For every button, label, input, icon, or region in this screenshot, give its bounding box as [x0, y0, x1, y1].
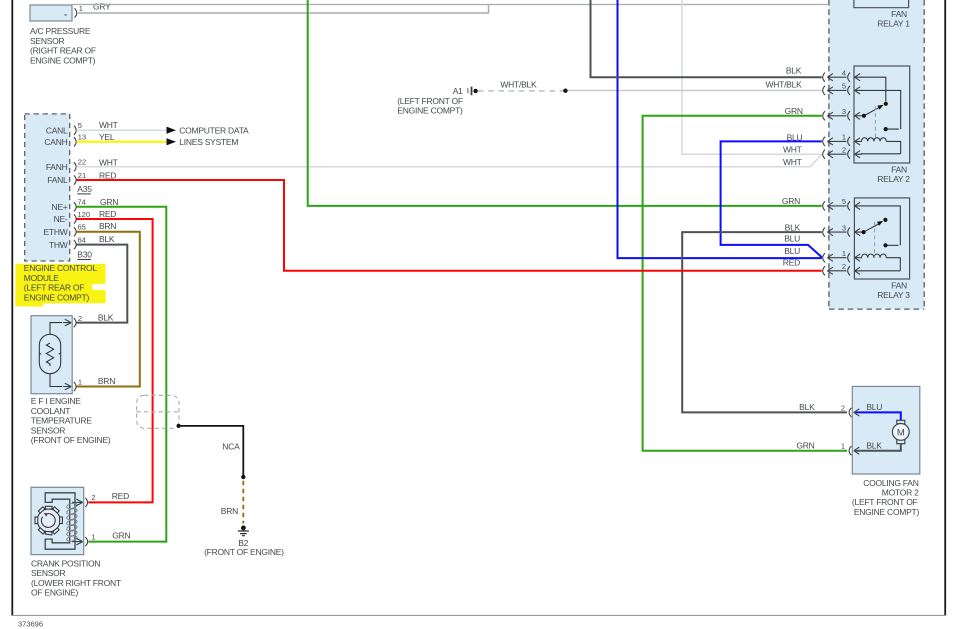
svg-text:1: 1	[79, 4, 83, 13]
svg-text:3: 3	[842, 107, 846, 116]
svg-text:BLU: BLU	[866, 402, 882, 412]
fan relay 3 box	[854, 198, 909, 279]
ECM pin numbers	[78, 121, 91, 244]
svg-text:1: 1	[842, 249, 846, 258]
wire BRN ETHW to coolant temp sensor	[76, 232, 139, 387]
svg-text:COOLING FAN: COOLING FAN	[863, 478, 918, 488]
svg-text:1: 1	[78, 378, 82, 387]
svg-text:ENGINE COMPT): ENGINE COMPT)	[24, 292, 90, 302]
svg-text:ENGINE COMPT): ENGINE COMPT)	[854, 507, 920, 517]
crank sensor pickup coil	[66, 502, 77, 542]
coolant sensor label	[31, 396, 111, 445]
crank position sensor box	[31, 487, 84, 554]
wire WHT FANH to fan relay 2 pin 2	[76, 154, 821, 167]
wire BLK fan relay 3 pin 3 to cooling fan motor pin 2	[682, 232, 847, 412]
fan relay 2 box	[854, 66, 910, 163]
junction dot at ghost connector	[177, 424, 181, 428]
svg-text:SENSOR: SENSOR	[30, 36, 65, 46]
wire GRY from A/C sensor	[78, 5, 489, 14]
svg-text:21: 21	[78, 171, 86, 180]
ECM pin NE+ bracket	[74, 202, 76, 211]
coolant sensor thermistor element	[39, 323, 62, 387]
svg-text:CRANK POSITION: CRANK POSITION	[31, 558, 100, 568]
svg-text:CANH: CANH	[44, 137, 67, 147]
junction dot NCA/BRN	[241, 475, 245, 479]
coolant sensor pin 2 connector	[63, 318, 76, 327]
fan relay 2 wire labels	[765, 66, 802, 167]
svg-text:5: 5	[78, 121, 82, 130]
svg-text:BLK: BLK	[786, 66, 802, 76]
svg-text:(FRONT OF ENGINE): (FRONT OF ENGINE)	[204, 547, 284, 557]
svg-text:NE-: NE-	[54, 214, 68, 224]
svg-text:WHT/BLK: WHT/BLK	[765, 79, 802, 89]
crank sensor pin 1 connector	[75, 537, 88, 546]
svg-text:ENGINE COMPT): ENGINE COMPT)	[397, 106, 463, 116]
svg-text:373696: 373696	[18, 619, 43, 628]
fan relay 2 mechanical link (dashed)	[874, 106, 876, 137]
page right border	[944, 0, 946, 616]
fan relay 2 pin 4 connector	[823, 73, 862, 82]
svg-text:BRN: BRN	[99, 221, 116, 231]
svg-text:(LEFT FRONT OF: (LEFT FRONT OF	[852, 497, 918, 507]
wire RED NE- to crank position sensor	[76, 219, 152, 502]
ECM pin FANH bracket	[74, 162, 76, 171]
svg-text:YEL: YEL	[99, 132, 115, 142]
motor internal BLU wire	[856, 412, 901, 420]
svg-text:WHT: WHT	[99, 120, 118, 130]
svg-text:RED: RED	[99, 209, 116, 219]
svg-text:3: 3	[842, 223, 846, 232]
svg-text:13: 13	[78, 133, 86, 142]
crank sensor reluctor wheel	[35, 506, 62, 535]
svg-text:(RIGHT REAR OF: (RIGHT REAR OF	[30, 46, 96, 56]
wire BRN dashed to ground B2	[242, 481, 244, 524]
wire NCA black	[179, 426, 244, 477]
svg-text:FANL: FANL	[47, 175, 68, 185]
fan relay 3 wire labels	[782, 196, 801, 267]
svg-text:FANH: FANH	[46, 162, 68, 172]
wire WHT CANL	[76, 129, 166, 131]
A1 location label	[397, 96, 463, 116]
fan relay 3 internal switch and coil	[861, 206, 901, 271]
ECM pin CANH bracket	[74, 137, 76, 146]
svg-text:RELAY 2: RELAY 2	[877, 174, 910, 184]
wire WHT/BLK dashed section at A1	[478, 90, 563, 92]
crank sensor pin 2 connector	[75, 498, 88, 507]
ECM pin names	[43, 125, 68, 249]
fan relay 2 pin 1 connector	[823, 137, 862, 146]
motor internal BLK wire	[856, 444, 901, 451]
svg-text:BLK: BLK	[799, 402, 815, 412]
fan relay 3 pin 3 connector	[823, 228, 862, 237]
svg-text:BLU: BLU	[787, 132, 803, 142]
crank sensor label	[31, 558, 121, 597]
svg-text:(LOWER RIGHT FRONT: (LOWER RIGHT FRONT	[31, 578, 121, 588]
cooling fan motor label	[852, 478, 920, 517]
svg-text:65: 65	[78, 223, 86, 232]
fan relay 1 box (cut off at top)	[854, 0, 909, 8]
svg-text:120: 120	[78, 210, 91, 219]
svg-text:NCA: NCA	[222, 441, 240, 451]
fan relay 1 label	[877, 9, 910, 28]
svg-text:74: 74	[78, 198, 86, 207]
computer data lines arrow 2	[167, 138, 177, 145]
fan relay 3 pin 2 connector	[823, 266, 862, 275]
svg-text:4: 4	[842, 68, 846, 77]
svg-text:2: 2	[78, 314, 82, 323]
ECM connector id B30	[77, 250, 92, 260]
A/C pressure sensor pin 1 bracket	[75, 8, 77, 17]
svg-text:MOTOR 2: MOTOR 2	[882, 488, 919, 498]
svg-text:2: 2	[842, 262, 846, 271]
svg-text:(LEFT FRONT OF: (LEFT FRONT OF	[397, 96, 463, 106]
svg-text:COOLANT: COOLANT	[31, 406, 70, 416]
ECM pin THW bracket	[74, 240, 76, 249]
svg-text:LINES SYSTEM: LINES SYSTEM	[179, 137, 238, 147]
svg-text:WHT/BLK: WHT/BLK	[500, 80, 537, 90]
svg-text:RED: RED	[783, 258, 800, 268]
svg-text:WHT: WHT	[783, 157, 802, 167]
svg-text:2: 2	[841, 403, 845, 412]
computer data lines arrow 1	[167, 127, 177, 134]
A/C pressure sensor label	[30, 26, 96, 65]
svg-text:BLK: BLK	[866, 440, 882, 450]
svg-text:RELAY 1: RELAY 1	[877, 19, 910, 29]
svg-text:FAN: FAN	[891, 280, 907, 290]
svg-text:ENGINE COMPT): ENGINE COMPT)	[30, 55, 96, 65]
svg-text:BRN: BRN	[221, 506, 238, 516]
wire RED FANL to fan relay 3 pin 2	[76, 180, 821, 271]
svg-text:1: 1	[91, 532, 95, 541]
ECM wire color labels	[99, 120, 118, 244]
crank sensor magnetic core	[45, 493, 75, 549]
ECM pin FANL bracket	[74, 175, 76, 184]
wire GRN from top to fan relay 3 pin 5	[308, 0, 822, 206]
ECM pin NE- bracket	[74, 214, 76, 223]
wire WHT vertical from top to fan relay 2 pin 2	[682, 0, 822, 154]
fan relay 3 pin numbers	[842, 197, 846, 271]
svg-text:1: 1	[841, 442, 845, 451]
engine control module dashed connector box	[25, 114, 70, 261]
wire GRN NE+ to crank position sensor	[76, 207, 166, 542]
noise filter ghost connector (dashed)	[137, 395, 179, 428]
svg-text:5: 5	[842, 82, 846, 91]
svg-text:GRN: GRN	[782, 196, 800, 206]
svg-text:E F I ENGINE: E F I ENGINE	[31, 396, 81, 406]
wire BLK THW to coolant temp sensor	[76, 245, 127, 323]
fan relay 2 pin numbers	[842, 68, 846, 154]
svg-text:FAN: FAN	[891, 164, 907, 174]
svg-text:GRN: GRN	[100, 197, 118, 207]
ground symbol B2	[238, 526, 249, 536]
wire GRN fan relay 2 pin 3 to cooling fan motor pin 1	[643, 116, 847, 451]
svg-text:64: 64	[78, 235, 86, 244]
wire WHT/BLK from A1 to fan relay 2 pin 5	[568, 90, 822, 92]
svg-text:A35: A35	[77, 184, 92, 194]
B2 label	[204, 538, 284, 557]
svg-text:CANL: CANL	[46, 125, 68, 135]
fan relay 2 internal switch and coil	[861, 77, 901, 154]
svg-text:WHT: WHT	[99, 157, 118, 167]
svg-text:(LEFT REAR OF: (LEFT REAR OF	[24, 283, 84, 293]
fan relay 2 pin 3 connector	[823, 111, 862, 120]
svg-text:B30: B30	[77, 250, 92, 260]
svg-text:BLK: BLK	[98, 312, 114, 322]
svg-text:5: 5	[842, 197, 846, 206]
svg-text:GRN: GRN	[785, 106, 803, 116]
svg-text:(FRONT OF ENGINE): (FRONT OF ENGINE)	[31, 435, 111, 445]
page bottom border	[11, 615, 946, 616]
svg-text:NE+: NE+	[51, 202, 67, 212]
wire YEL CANH	[76, 141, 166, 143]
svg-text:BLU: BLU	[784, 246, 800, 256]
wire BLU fan relay 2 pin 1 to fan relay 3 pin 1	[721, 141, 822, 257]
ECM pin ETHW bracket	[74, 227, 76, 236]
svg-text:THW: THW	[49, 240, 68, 250]
fan relay 2 label	[877, 164, 910, 184]
ECM label (highlighted)	[24, 263, 98, 302]
svg-text:ENGINE CONTROL: ENGINE CONTROL	[24, 263, 98, 273]
cooling fan motor pin 1 connector	[849, 446, 861, 455]
svg-text:BLK: BLK	[99, 234, 115, 244]
ECM connector id A35	[77, 184, 92, 194]
yellow highlighter over ECM label	[15, 264, 106, 307]
EFI engine coolant temperature sensor box	[31, 316, 72, 394]
svg-text:COMPUTER DATA: COMPUTER DATA	[179, 126, 249, 136]
svg-text:A1: A1	[453, 86, 463, 96]
svg-text:GRN: GRN	[112, 530, 130, 540]
svg-text:WHT: WHT	[783, 144, 802, 154]
svg-text:2: 2	[842, 145, 846, 154]
svg-text:RED: RED	[112, 491, 129, 501]
fan relay 3 label	[877, 280, 910, 300]
svg-text:GRN: GRN	[796, 440, 814, 450]
svg-text:1: 1	[842, 133, 846, 142]
svg-text:M: M	[897, 427, 905, 438]
computer data lines system label	[179, 126, 249, 148]
svg-text:SENSOR: SENSOR	[31, 425, 66, 435]
fan relay 3 pin 5 connector	[823, 201, 862, 210]
fan relay 3 pin 1 connector	[823, 253, 862, 262]
svg-text:22: 22	[78, 158, 86, 167]
svg-text:BRN: BRN	[98, 376, 115, 386]
cooling fan motor pin 2 connector	[849, 408, 861, 417]
svg-text:BLU: BLU	[784, 234, 800, 244]
svg-text:TEMPERATURE: TEMPERATURE	[31, 416, 92, 426]
wire BLU from top to fan relay 3 pin 1	[618, 0, 822, 258]
svg-text:MODULE: MODULE	[24, 273, 59, 283]
svg-text:OF ENGINE): OF ENGINE)	[31, 588, 79, 598]
fan relay 3 mechanical link (dashed)	[874, 222, 876, 258]
svg-text:2: 2	[91, 493, 95, 502]
svg-text:ETHW: ETHW	[43, 227, 67, 237]
svg-text:SENSOR: SENSOR	[31, 568, 66, 578]
page left border	[11, 0, 13, 616]
svg-text:RELAY 3: RELAY 3	[877, 290, 910, 300]
ECM pin CANL bracket	[74, 126, 76, 135]
motor M symbol	[892, 420, 909, 443]
fan relay 2 pin 5 connector	[823, 86, 862, 95]
wire BLK from top to fan relay 2 pin 4	[591, 0, 822, 77]
crank sensor coil leads	[72, 502, 75, 541]
cooling fan motor 2 box	[852, 386, 920, 474]
fan relay dashed enclosure box	[829, 0, 924, 309]
wire top gray to fan relay 1	[72, 4, 829, 6]
svg-text:BLK: BLK	[785, 222, 801, 232]
A/C pressure sensor box	[30, 5, 72, 21]
coolant sensor pin 1 connector	[63, 382, 76, 391]
A1 in-line connector symbol	[467, 87, 567, 96]
svg-text:GRY: GRY	[93, 1, 111, 11]
fan relay 2 pin 2 connector	[823, 150, 862, 159]
svg-text:A/C PRESSURE: A/C PRESSURE	[30, 26, 91, 36]
